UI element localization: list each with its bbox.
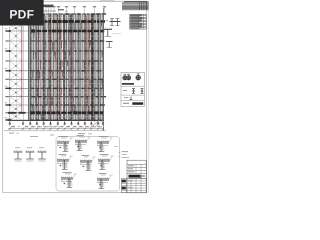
connection details box frame xyxy=(56,137,120,192)
base plate detail 2 xyxy=(26,147,35,161)
title block left border tick marks xyxy=(115,146,121,157)
floor beam rows xyxy=(29,11,106,122)
misc annotation above details xyxy=(30,135,54,138)
bottom dimension line xyxy=(8,126,104,134)
legend box frame xyxy=(121,72,145,106)
legend anchor glyph xyxy=(124,97,132,100)
section detail glyph D1 xyxy=(106,18,121,26)
legend bottom dark bar xyxy=(123,102,143,105)
elevation minor vertical member lines xyxy=(30,14,103,121)
connection detail 7 xyxy=(61,172,77,187)
connection detail 5 xyxy=(80,155,96,170)
structure right edge column xyxy=(103,8,105,131)
connection detail 4 xyxy=(57,154,73,169)
column base symbols xyxy=(8,121,104,126)
column head labels xyxy=(43,0,114,13)
tower X-bracing xyxy=(10,26,22,121)
tower chords xyxy=(10,14,29,122)
legend pile symbols xyxy=(123,73,141,80)
base plate detail 3 xyxy=(38,147,47,161)
PDF badge xyxy=(0,0,44,26)
sheet border frame xyxy=(3,1,149,193)
title block signature grid xyxy=(121,179,146,193)
scale note under elevation xyxy=(78,133,92,134)
section detail glyph D3 xyxy=(106,34,121,48)
title block upper rows xyxy=(127,160,146,193)
section detail glyph D2 xyxy=(104,28,112,37)
ground line xyxy=(4,130,106,132)
legend dark label bar xyxy=(122,83,134,85)
tower horizontal members and gusset nodes xyxy=(5,29,29,122)
sheet top border segment xyxy=(44,0,147,2)
base plate detail 1 xyxy=(14,147,23,161)
base diagonal braces xyxy=(90,117,104,128)
column grid lines xyxy=(30,14,103,122)
red marked vertical members xyxy=(22,15,88,120)
elevation tertiary vertical member lines xyxy=(31,14,103,120)
top-right notes table xyxy=(122,1,148,10)
svg-text:PDF: PDF xyxy=(9,7,34,21)
connection detail 2 xyxy=(75,135,91,150)
notes above title block xyxy=(122,151,130,158)
elevation secondary vertical member lines xyxy=(32,14,103,121)
connection detail 8 xyxy=(97,173,113,188)
connection detail 1 xyxy=(57,136,73,151)
legend column section glyphs xyxy=(123,89,144,94)
intermediate tie lines xyxy=(29,18,104,117)
connection detail 6 xyxy=(98,154,114,169)
right material list table xyxy=(130,14,147,29)
connection detail 3 xyxy=(97,136,113,151)
